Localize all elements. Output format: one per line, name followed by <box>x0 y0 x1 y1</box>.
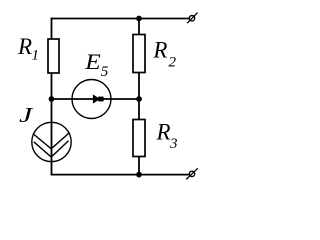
svg-text:E: E <box>84 51 101 75</box>
svg-text:J: J <box>19 103 34 127</box>
svg-text:R: R <box>17 34 32 59</box>
svg-text:2: 2 <box>169 55 177 71</box>
svg-text:1: 1 <box>32 47 40 63</box>
svg-text:R: R <box>152 38 167 63</box>
svg-text:5: 5 <box>101 64 109 80</box>
svg-text:3: 3 <box>169 136 178 152</box>
svg-text:R: R <box>156 120 171 145</box>
